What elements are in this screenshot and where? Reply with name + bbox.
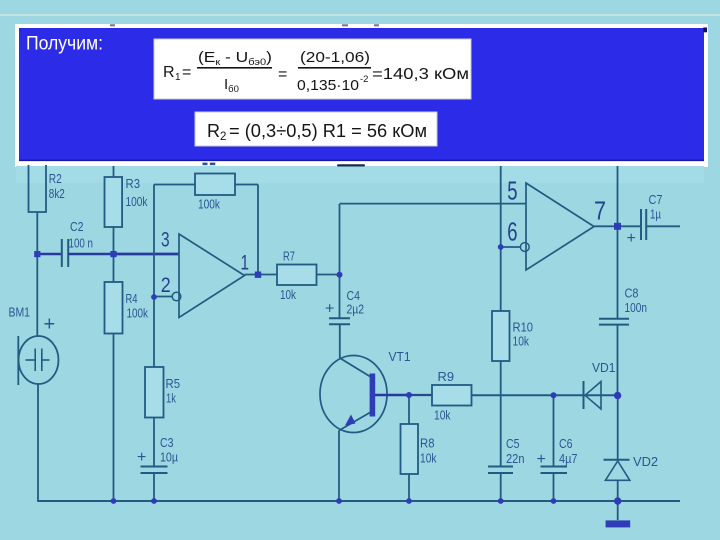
wire VT1 emitter to rail (338, 431, 340, 502)
wire R3 top (113, 166, 115, 177)
wire C6 top (553, 395, 555, 466)
capacitor C5 plates (488, 466, 513, 468)
microphone BM1 side line (17, 336, 19, 385)
svg-text:BM1: BM1 (9, 305, 31, 320)
junction dots and filled parts (34, 223, 630, 528)
microphone BM1 inner capacitor (34, 349, 36, 372)
svg-text:VD1: VD1 (592, 360, 616, 375)
resistor R10 body (492, 311, 510, 361)
svg-text:8k2: 8k2 (49, 186, 65, 201)
svg-text:+: + (537, 451, 546, 468)
diode VD1 triangle (585, 382, 601, 410)
svg-text:2: 2 (220, 131, 226, 143)
rail junction VD2 (614, 497, 621, 504)
svg-text:+: + (44, 314, 56, 336)
resistor R8 body (401, 424, 419, 474)
wire C6 bottom to rail (553, 473, 555, 501)
svg-text:10k: 10k (280, 287, 296, 302)
microphone BM1 body (19, 336, 59, 384)
banner blue box (19, 28, 704, 161)
svg-text:R10: R10 (513, 320, 534, 335)
svg-text:R8: R8 (420, 436, 435, 451)
diode VD2 triangle (605, 461, 629, 480)
svg-text:1: 1 (175, 72, 181, 83)
wire to op-amp U2 pin5 (340, 203, 527, 205)
svg-text:=140,3 кОм: =140,3 кОм (372, 66, 469, 83)
wire R9 right to node E (472, 394, 554, 396)
wire rail to ground bar (617, 501, 619, 520)
wire R5 top (153, 297, 155, 367)
svg-text:10k: 10k (513, 334, 530, 349)
svg-text:C7: C7 (649, 192, 663, 207)
resistor R7 body (277, 265, 317, 286)
svg-text:6: 6 (507, 216, 517, 246)
svg-text:2: 2 (161, 273, 171, 297)
wire feedback down to output node (257, 185, 259, 275)
svg-text:7: 7 (594, 195, 606, 225)
svg-text:100k: 100k (127, 306, 149, 321)
svg-text:R2: R2 (49, 171, 62, 186)
wire VT1 base to node D (375, 394, 409, 397)
capacitor C4 plates (329, 317, 350, 319)
svg-text:C8: C8 (625, 286, 639, 301)
resistor R6 body (195, 174, 235, 196)
svg-text:+: + (325, 301, 334, 318)
formula box 2 (195, 112, 437, 146)
capacitor C7 plates (640, 209, 642, 240)
wire C7 right stub (646, 225, 680, 227)
svg-text:VD2: VD2 (633, 454, 658, 469)
resistor R3 body (105, 177, 123, 227)
ground bar (606, 520, 631, 527)
op-amp U2 triangle (526, 183, 594, 270)
svg-text:C2: C2 (70, 219, 84, 234)
wire R8 bottom to rail (408, 474, 410, 501)
svg-text:10k: 10k (434, 408, 451, 423)
rail junction R4 (111, 498, 117, 504)
svg-text:C3: C3 (160, 435, 174, 450)
svg-text:R4: R4 (126, 291, 138, 306)
wire C4 to VT1 collector (339, 324, 341, 358)
wire from supply down to pin6 node (500, 166, 502, 247)
svg-text:1µ: 1µ (650, 207, 661, 222)
transistor VT1 emitter lead (339, 413, 370, 431)
rail junction VT1 emitter (336, 498, 342, 504)
wire R5 bottom to C3 (153, 418, 155, 467)
svg-text:R5: R5 (166, 376, 181, 391)
wire R7 right to node C (317, 274, 340, 276)
svg-text:R: R (207, 121, 220, 141)
wire C8 bottom to node G (617, 325, 619, 396)
light band under banner (16, 166, 704, 183)
VT1 base bar (370, 374, 376, 417)
formula R2 (207, 121, 427, 143)
svg-text:1: 1 (241, 250, 250, 274)
svg-text:22n: 22n (506, 451, 525, 466)
svg-text:+: + (627, 230, 636, 247)
wire node C down to C4 (339, 275, 341, 319)
svg-text:1k: 1k (166, 391, 176, 406)
svg-text:100k: 100k (126, 194, 148, 209)
rail junction C5 (498, 498, 504, 504)
wire C3 bottom to rail (153, 473, 155, 501)
svg-text:0,135·10: 0,135·10 (297, 77, 359, 94)
fraction bar 1 (197, 67, 272, 69)
wire supply down to node F (617, 166, 619, 226)
diode VD2 cathode bar (604, 459, 630, 461)
wire node A to C2 (37, 253, 61, 256)
wire R2 bottom to node A (36, 212, 38, 254)
op-amp U2 inverting bubble (520, 243, 529, 252)
wire R4 top (113, 254, 115, 282)
resistor R5 body (145, 367, 164, 418)
resistor R2 body (29, 165, 47, 212)
svg-text:Получим:: Получим: (26, 33, 103, 55)
resistor R4 body (105, 282, 123, 334)
svg-text:R3: R3 (126, 176, 141, 191)
clipped dark dash on white border above node C column (337, 164, 365, 166)
wire node C up (339, 204, 341, 275)
wire U2 output to node F (594, 225, 641, 227)
svg-text:100n: 100n (625, 300, 648, 315)
fraction bar 2 (298, 67, 371, 69)
svg-text:=: = (182, 64, 191, 81)
diode VD1 cathode bar (583, 381, 585, 409)
svg-text:R: R (163, 64, 175, 81)
wire node G down to VD2 (617, 396, 619, 461)
node A junction square (34, 251, 40, 257)
transistor VT1 collector lead (340, 358, 370, 377)
svg-text:R9: R9 (438, 369, 455, 384)
op-amp U1 triangle (179, 234, 245, 318)
svg-text:4µ7: 4µ7 (559, 451, 578, 466)
faint horizontal line (0, 14, 720, 16)
dark edge at banner bottom (19, 159, 704, 161)
wire C5 bottom to rail (500, 473, 502, 501)
capacitor C3 plates (141, 466, 168, 468)
wire VD2 to rail (617, 480, 619, 501)
svg-text:R7: R7 (283, 249, 295, 264)
svg-text:(20-1,06): (20-1,06) (300, 49, 370, 66)
svg-text:10k: 10k (420, 451, 437, 466)
transistor VT1 body circle (320, 356, 387, 433)
svg-text:3: 3 (161, 228, 170, 252)
formula R1 lhs (163, 49, 469, 95)
rail junction R8 (406, 498, 412, 504)
wire pin3 (node B to op-amp U1) (114, 253, 180, 256)
node F junction square (614, 223, 621, 230)
wire R8 top (408, 395, 410, 424)
resistor R9 body (432, 385, 472, 406)
svg-text:VT1: VT1 (389, 349, 411, 364)
wire node D to R9 (409, 394, 432, 396)
svg-text:-2: -2 (360, 74, 368, 85)
ground rail wire (37, 500, 680, 502)
capacitor C2 plates (61, 239, 63, 267)
svg-text:5: 5 (507, 176, 517, 206)
svg-text:= (0,3÷0,5) R1 = 56 кОм: = (0,3÷0,5) R1 = 56 кОм (229, 121, 427, 141)
node D junction (406, 392, 412, 398)
svg-text:100k: 100k (198, 197, 220, 212)
wire R3 bottom to node B (113, 227, 115, 254)
wire C2 to node B (68, 253, 113, 256)
pin2 node junction (151, 294, 157, 300)
wire BM1 top (36, 254, 38, 336)
rail junction C6 (551, 498, 557, 504)
op-amp U1 inverting bubble (172, 292, 181, 301)
wire node F down to C8 (617, 226, 619, 318)
node C junction (337, 272, 343, 278)
clipped label remnant R6 above feedback resistor (203, 163, 208, 166)
svg-text:2µ2: 2µ2 (347, 302, 365, 317)
capacitor C8 plates (599, 318, 629, 320)
VT1 emitter arrow (345, 415, 356, 426)
corner mark top-right of banner (703, 28, 707, 33)
svg-text:+: + (137, 449, 146, 466)
wire U1 output (245, 274, 278, 276)
wire BM1 bottom to rail (37, 384, 39, 501)
node B junction square (110, 251, 116, 257)
formula box 1 (154, 39, 471, 99)
wire node E to VD1 (554, 394, 618, 396)
wire R10 bottom to C5 (500, 361, 502, 466)
wire R6 right (235, 184, 258, 186)
wire feedback left column to pin2 node (153, 185, 155, 298)
capacitor C6 plates (541, 466, 568, 468)
rail junction C3 (151, 498, 157, 504)
wire R4 bottom to rail (113, 334, 115, 502)
pin6 node junction (498, 244, 504, 250)
svg-text:=: = (278, 66, 287, 83)
node G junction (VD1) (614, 392, 621, 399)
wire pin2 node to bubble (154, 296, 173, 298)
banner white border (15, 24, 708, 167)
svg-text:10µ: 10µ (160, 450, 178, 465)
U1 output junction square (255, 272, 261, 278)
svg-text:C6: C6 (559, 436, 573, 451)
wire R6 left (154, 184, 195, 186)
svg-text:C5: C5 (506, 436, 520, 451)
wire pin6 node to bubble (501, 246, 521, 248)
svg-text:100 n: 100 n (69, 236, 94, 251)
node E junction (551, 392, 557, 398)
wire R10 top (500, 247, 502, 311)
small remnants on banner top border (110, 24, 115, 26)
